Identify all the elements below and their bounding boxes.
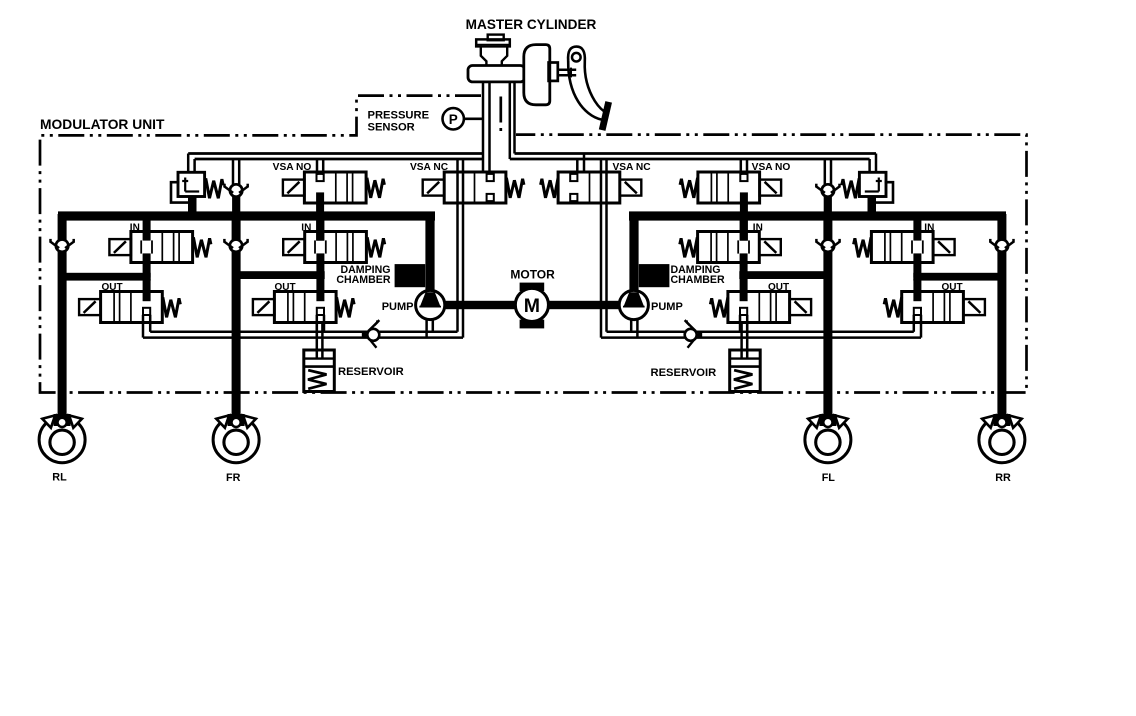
- svg-text:RESERVOIR: RESERVOIR: [338, 366, 404, 378]
- svg-text:PUMP: PUMP: [382, 301, 414, 313]
- svg-text:OUT: OUT: [101, 282, 122, 293]
- wire return line left: [150, 331, 457, 334]
- svg-text:RESERVOIR: RESERVOIR: [651, 367, 717, 379]
- svg-text:SENSOR: SENSOR: [368, 121, 415, 133]
- master cylinder pipe 1 (left, to VSA NC left): [482, 82, 485, 172]
- modulator unit boundary (dash-dot box): [40, 96, 1027, 393]
- svg-text:PUMP: PUMP: [651, 301, 683, 313]
- wire supply header right (inner line): [510, 158, 870, 161]
- svg-text:VSA NO: VSA NO: [752, 162, 791, 173]
- wire drop to VSA NC right top port: [576, 159, 579, 172]
- check valve FL line: [816, 239, 839, 252]
- wire drop to VSA NO right: [746, 159, 749, 175]
- valve OUT outer right (solenoid): [902, 292, 964, 323]
- wire to FL wheel: [823, 218, 832, 417]
- wire supply header left (inner line): [195, 158, 483, 161]
- svg-text:CHAMBER: CHAMBER: [336, 274, 390, 286]
- wire cross line FL circuit: [739, 271, 832, 279]
- valve VSA NO left (solenoid): [304, 172, 366, 203]
- wire pressure sensor to master cylinder pipe: [463, 118, 484, 121]
- valve OUT outer right port detail: [913, 279, 921, 301]
- relief valve right (with spring): [859, 172, 886, 196]
- valve OUT inner right port detail: [740, 279, 748, 301]
- svg-text:IN: IN: [130, 223, 140, 234]
- svg-text:RL: RL: [52, 471, 67, 483]
- motor shaft left (thick): [444, 301, 516, 309]
- wheel FL: [805, 393, 851, 463]
- modulator boundary segment between master cylinder pipes: [499, 97, 502, 134]
- reservoir right: [730, 350, 761, 392]
- svg-text:MOTOR: MOTOR: [510, 268, 555, 282]
- pedal push rod: [558, 69, 576, 72]
- svg-text:M: M: [524, 295, 540, 317]
- motor end tab bottom: [520, 320, 545, 329]
- motor M: [515, 288, 548, 321]
- master cylinder barrel: [468, 66, 525, 82]
- valve VSA NC left (solenoid): [444, 172, 506, 203]
- valve VSA NC right port detail: [570, 174, 577, 181]
- wheel RL: [39, 393, 85, 463]
- svg-text:VSA NC: VSA NC: [612, 162, 651, 173]
- wire VSA NC right through-pipe: [605, 159, 608, 332]
- motor shaft right (thick): [548, 301, 620, 309]
- damping chamber right (black box): [639, 264, 670, 287]
- svg-text:IN: IN: [753, 223, 763, 234]
- booster clevis: [549, 63, 558, 81]
- valve IN inner left (solenoid): [305, 232, 367, 263]
- svg-text:CHAMBER: CHAMBER: [671, 274, 725, 286]
- wire pump discharge left (thick): [425, 216, 434, 294]
- wire manifold right (thick): [629, 211, 1006, 220]
- wire to RR wheel: [997, 214, 1006, 417]
- wire cross line RL circuit: [58, 273, 151, 281]
- valve IN outer right (solenoid): [871, 232, 933, 263]
- wire cross line RR circuit: [913, 273, 1006, 281]
- valve IN outer right port detail: [913, 214, 921, 241]
- svg-text:MODULATOR UNIT: MODULATOR UNIT: [40, 117, 165, 132]
- check valve (right supply, upper): [824, 196, 832, 213]
- valve VSA NC right (solenoid): [558, 172, 620, 203]
- valve OUT inner right (solenoid): [728, 292, 790, 323]
- wire drop to relief valve right: [875, 154, 878, 173]
- svg-text:OUT: OUT: [274, 282, 295, 293]
- wheel RR: [979, 393, 1025, 463]
- wire pump suction left: [425, 319, 428, 337]
- valve OUT inner left (solenoid): [274, 292, 336, 323]
- svg-text:IN: IN: [301, 223, 311, 234]
- valve IN outer left port detail: [143, 214, 151, 241]
- master cylinder reservoir cap: [488, 35, 504, 41]
- wire supply header left (outer line): [188, 152, 483, 155]
- valve OUT outer left (solenoid): [101, 292, 163, 323]
- svg-text:IN: IN: [924, 223, 934, 234]
- master cylinder pipe 2 (right, elbow to right half): [509, 82, 512, 159]
- valve IN outer left (solenoid): [131, 232, 193, 263]
- check valve RR line: [990, 239, 1013, 252]
- svg-text:FL: FL: [822, 472, 836, 484]
- valve VSA NC left port detail: [487, 174, 494, 181]
- wire drop to relief valve left: [187, 154, 190, 173]
- wheel FR: [213, 393, 259, 463]
- check valve (left supply, upper): [232, 196, 240, 213]
- svg-text:VSA NO: VSA NO: [273, 162, 312, 173]
- check valve return right: [685, 321, 703, 347]
- svg-text:RR: RR: [995, 472, 1011, 484]
- wire return line right: [607, 331, 914, 334]
- master cylinder reservoir funnel: [481, 46, 487, 66]
- valve VSA NO right port detail: [740, 174, 747, 181]
- wire VSA NC left through-pipe: [456, 159, 459, 332]
- relief valve left (with spring): [178, 172, 205, 196]
- check valve FR line: [224, 239, 247, 252]
- wire reservoir stub right: [746, 322, 749, 358]
- svg-text:P: P: [449, 112, 458, 127]
- valve OUT outer left port detail: [143, 279, 151, 301]
- pump right: [619, 290, 648, 319]
- wire to FR wheel: [232, 218, 241, 417]
- brake booster: [524, 45, 550, 105]
- wire cross line FR circuit: [232, 271, 325, 279]
- wire manifold left (thick): [58, 211, 435, 220]
- check valve RL line: [51, 239, 74, 252]
- motor end tab top: [520, 283, 545, 291]
- valve VSA NO left port detail: [317, 174, 324, 181]
- wire drop to check valve right: [830, 159, 833, 185]
- valve VSA NO right (solenoid): [698, 172, 760, 203]
- wire drop to VSA NO left: [316, 159, 319, 175]
- svg-text:PRESSURE: PRESSURE: [368, 110, 430, 122]
- damping chamber left (black box): [395, 264, 426, 287]
- master cylinder reservoir flange: [476, 39, 510, 46]
- svg-text:OUT: OUT: [941, 282, 962, 293]
- valve IN inner right port detail: [740, 214, 748, 241]
- svg-text:VSA NC: VSA NC: [410, 162, 449, 173]
- wire to RL wheel: [58, 214, 67, 417]
- check valve return left: [362, 321, 380, 347]
- valve IN inner right (solenoid): [698, 232, 760, 263]
- wire pump suction right: [636, 319, 639, 337]
- wire drop to check valve left: [232, 159, 235, 185]
- reservoir left: [304, 350, 335, 392]
- svg-text:MASTER CYLINDER: MASTER CYLINDER: [466, 17, 597, 32]
- pressure sensor P: [443, 108, 464, 129]
- pedal pad: [599, 101, 612, 131]
- valve IN inner left port detail: [316, 214, 324, 241]
- valve OUT inner left port detail: [316, 279, 324, 301]
- wire supply header right (outer line): [515, 152, 877, 155]
- brake pedal arm: [568, 47, 608, 114]
- pump left: [416, 290, 445, 319]
- wire reservoir stub left: [316, 322, 319, 358]
- svg-text:FR: FR: [226, 472, 241, 484]
- svg-text:OUT: OUT: [768, 282, 789, 293]
- pedal pivot hole: [572, 53, 581, 62]
- wire pump discharge right (thick): [629, 216, 638, 294]
